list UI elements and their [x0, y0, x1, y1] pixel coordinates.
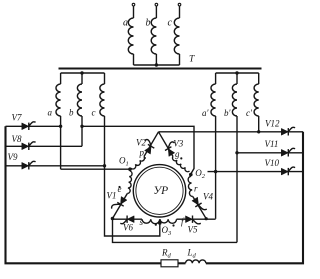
- svg-text:s: s: [140, 217, 144, 227]
- svg-text:b: b: [69, 108, 74, 118]
- svg-text:p: p: [139, 148, 145, 158]
- svg-text:e: e: [118, 184, 122, 194]
- svg-text:V1: V1: [107, 191, 117, 201]
- svg-text:c′: c′: [246, 108, 253, 118]
- svg-text:a: a: [123, 18, 128, 29]
- svg-text:V2: V2: [136, 138, 146, 148]
- svg-text:b′: b′: [224, 108, 232, 118]
- svg-text:V4: V4: [203, 192, 213, 202]
- svg-text:c: c: [92, 107, 96, 117]
- svg-text:УР: УР: [153, 185, 168, 197]
- svg-text:V12: V12: [265, 119, 280, 129]
- svg-text:V3: V3: [173, 138, 183, 148]
- svg-text:a: a: [48, 108, 53, 118]
- svg-text:g: g: [175, 149, 180, 159]
- svg-text:V5: V5: [188, 225, 198, 235]
- svg-text:V8: V8: [12, 134, 22, 144]
- svg-text:V7: V7: [12, 113, 22, 123]
- svg-text:c: c: [168, 17, 173, 28]
- svg-text:V9: V9: [8, 152, 18, 162]
- svg-text:V6: V6: [123, 223, 133, 233]
- svg-text:b: b: [146, 18, 151, 29]
- svg-text:V10: V10: [265, 158, 280, 168]
- svg-text:T: T: [189, 55, 195, 65]
- svg-text:r: r: [194, 184, 198, 194]
- svg-text:V11: V11: [265, 139, 279, 149]
- svg-text:a′: a′: [202, 108, 210, 118]
